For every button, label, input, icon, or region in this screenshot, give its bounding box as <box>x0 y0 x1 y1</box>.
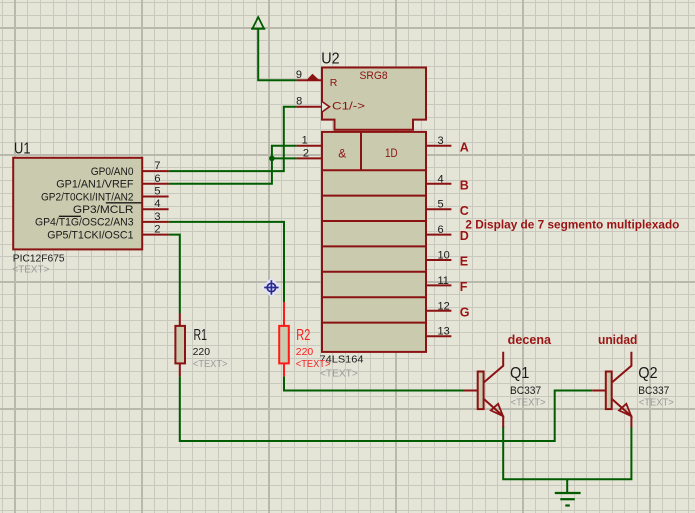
svg-text:1D: 1D <box>385 148 398 160</box>
ground symbol <box>555 493 581 506</box>
svg-text:R2: R2 <box>296 327 310 344</box>
U2 row dividers <box>322 132 426 323</box>
U1 pin 6 GP1/AN1/VREF <box>56 173 168 191</box>
svg-text:GP4/T1G/OSC2/AN3: GP4/T1G/OSC2/AN3 <box>35 217 134 229</box>
svg-text:F: F <box>460 280 468 294</box>
svg-text:B: B <box>460 178 469 192</box>
svg-text:C1/->: C1/-> <box>332 101 365 113</box>
U1 pin 2 GP5/T1CKI/OSC1 <box>47 224 168 242</box>
svg-text:unidad: unidad <box>598 333 637 347</box>
svg-text:13: 13 <box>438 326 450 338</box>
svg-text:2 Display de 7 segmento multip: 2 Display de 7 segmento multiplexado <box>465 218 679 232</box>
svg-text:Q2: Q2 <box>638 365 657 382</box>
svg-text:R1: R1 <box>194 327 208 344</box>
svg-text:1: 1 <box>302 135 308 147</box>
svg-text:<TEXT>: <TEXT> <box>193 359 228 370</box>
svg-text:GP0/AN0: GP0/AN0 <box>91 166 134 178</box>
svg-text:BC337: BC337 <box>638 385 669 397</box>
svg-text:<TEXT>: <TEXT> <box>12 265 49 276</box>
wire emitter rail Q1 to Q2 <box>503 427 631 480</box>
svg-text:BC337: BC337 <box>510 385 541 397</box>
svg-text:<TEXT>: <TEXT> <box>296 359 331 370</box>
svg-text:PIC12F675: PIC12F675 <box>13 254 65 265</box>
wire U1 pin3 (GP4) to R2 top <box>169 222 284 302</box>
svg-text:220: 220 <box>193 347 211 358</box>
svg-text:12: 12 <box>438 300 450 312</box>
U2 pin 8 clock with chevron <box>296 96 329 112</box>
U2 pin 13 <box>426 326 451 338</box>
U1 pin 4 GP3/MCLR with MCLR overbar <box>59 198 169 216</box>
wire branch to U2 pin2 <box>272 157 297 159</box>
junction dot <box>269 156 275 162</box>
U2 pin 4 output B <box>426 173 451 185</box>
svg-text:GP1/AN1/VREF: GP1/AN1/VREF <box>56 179 133 191</box>
U1 pin 5 GP2/T0CKI/INT/AN2 <box>41 186 169 204</box>
svg-text:GP2/T0CKI/INT/AN2: GP2/T0CKI/INT/AN2 <box>41 191 134 203</box>
U2 pin 3 output A <box>426 135 451 147</box>
svg-text:2: 2 <box>303 147 309 159</box>
shift register U2 74LS164 control block <box>322 68 426 130</box>
U2 pin 2 <box>297 147 322 159</box>
transistor Q2 BC337 <box>592 352 631 428</box>
svg-text:4: 4 <box>154 198 160 210</box>
svg-text:U1: U1 <box>14 141 31 158</box>
svg-text:11: 11 <box>438 275 449 287</box>
U2 pin 9 R with slash <box>296 69 322 81</box>
svg-text:5: 5 <box>154 186 160 198</box>
resistor R1 <box>175 313 185 376</box>
U2 pin 1 <box>297 135 322 147</box>
svg-text:2: 2 <box>154 224 160 236</box>
U2 pin 12 output G <box>426 300 451 312</box>
U1 pin 7 GP0/AN0 <box>91 160 169 178</box>
svg-text:C: C <box>460 204 469 218</box>
svg-text:3: 3 <box>438 135 444 147</box>
svg-text:3: 3 <box>154 211 160 223</box>
svg-text:SRG8: SRG8 <box>360 70 388 82</box>
wire R1 bottom to Q2 base <box>180 376 592 441</box>
wire U1 pin2 (GP5) to R1 top <box>169 235 180 313</box>
svg-text:6: 6 <box>438 224 444 236</box>
svg-text:&: & <box>338 146 346 160</box>
U2 pin 5 output C <box>426 199 451 211</box>
U2 pin 10 output E <box>426 250 451 262</box>
svg-text:U2: U2 <box>321 51 339 68</box>
U2 pin 6 output D <box>426 224 451 236</box>
power terminal VCC arrow <box>251 17 265 29</box>
transistor Q1 BC337 <box>464 352 503 428</box>
svg-text:GP5/T1CKI/OSC1: GP5/T1CKI/OSC1 <box>47 229 133 241</box>
resistor R2 (selected, red) <box>279 302 289 376</box>
wire R2 bottom to Q1 base <box>284 376 464 390</box>
svg-text:4: 4 <box>438 173 444 185</box>
origin marker crosshair <box>261 278 281 298</box>
svg-text:<TEXT>: <TEXT> <box>511 398 546 409</box>
svg-text:6: 6 <box>154 173 160 185</box>
svg-text:decena: decena <box>508 333 552 347</box>
U1 pin 3 GP4/T1G/OSC2/AN3 <box>35 211 169 229</box>
wire U1 pin6 to U2 pin1 <box>169 146 297 184</box>
svg-text:R: R <box>330 77 338 89</box>
svg-text:9: 9 <box>296 69 302 81</box>
U2 pin 11 output F <box>426 275 451 287</box>
chip U1 PIC12F675 body <box>13 158 142 250</box>
svg-text:10: 10 <box>438 250 450 262</box>
U2 main body <box>322 132 426 352</box>
wire ground stub <box>566 479 568 493</box>
svg-text:<TEXT>: <TEXT> <box>639 398 674 409</box>
svg-text:220: 220 <box>296 347 314 358</box>
svg-text:7: 7 <box>154 160 160 172</box>
svg-text:GP3/MCLR: GP3/MCLR <box>73 204 134 216</box>
svg-text:<TEXT>: <TEXT> <box>320 368 358 379</box>
svg-text:E: E <box>460 255 468 269</box>
svg-text:5: 5 <box>438 199 444 211</box>
svg-text:8: 8 <box>296 96 302 108</box>
wire U1 pin7 to U2 pin8 (clock) <box>169 107 297 171</box>
svg-text:Q1: Q1 <box>510 365 529 382</box>
svg-text:G: G <box>460 305 470 319</box>
svg-text:A: A <box>460 140 469 154</box>
wire VCC to U2 pin 9 <box>258 29 296 80</box>
